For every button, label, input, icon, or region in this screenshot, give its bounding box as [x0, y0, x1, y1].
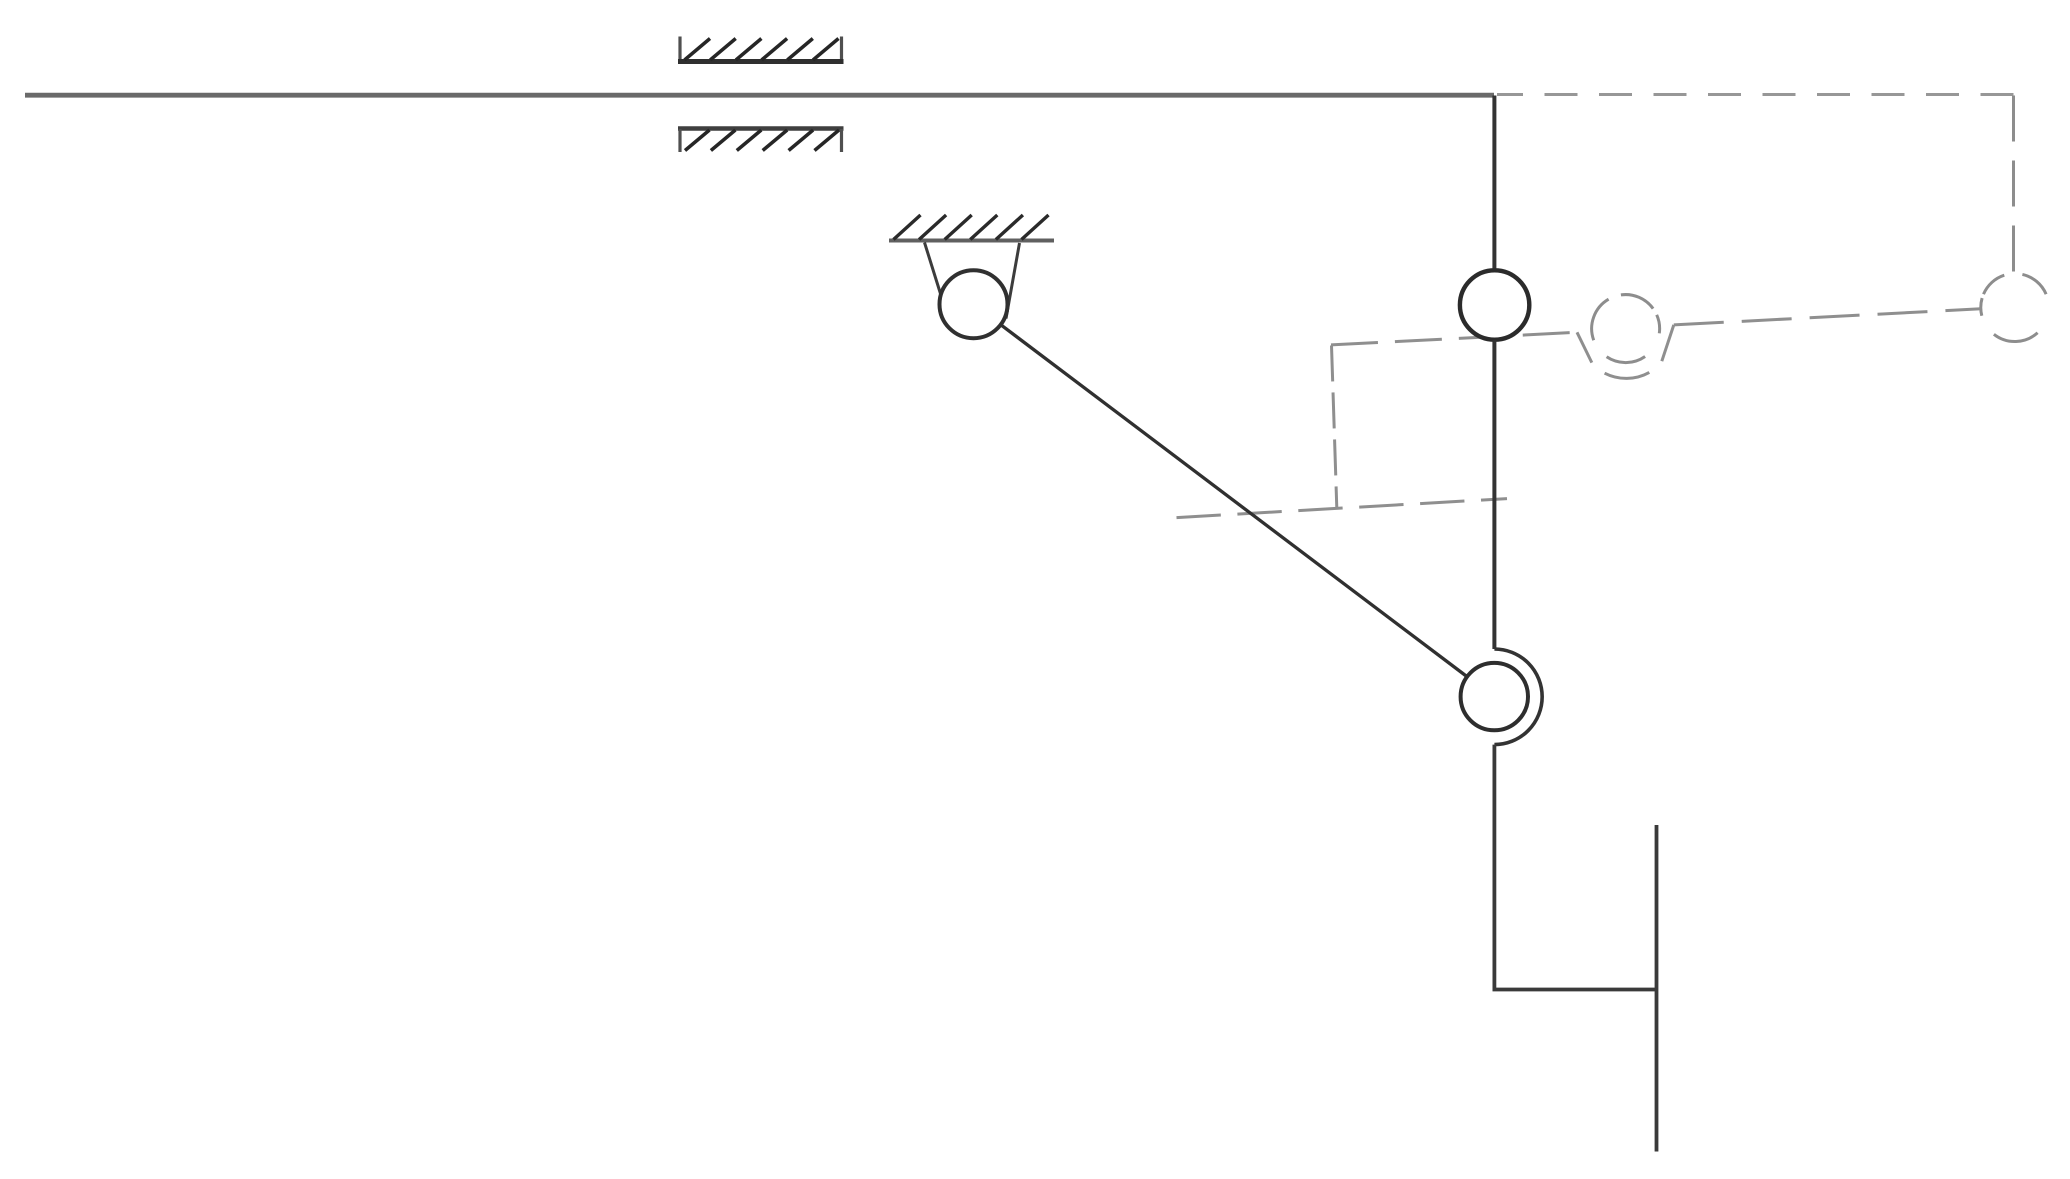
ghost notch lead-out right — [1662, 325, 1674, 361]
ghost pin circle C' — [1592, 295, 1660, 363]
pivot support legs — [925, 243, 1020, 319]
pivot ground hatching — [894, 215, 1049, 240]
ghost notch outer arc — [1605, 372, 1650, 378]
pivot pin circle O — [940, 270, 1008, 338]
pivot ground line — [889, 239, 1054, 243]
pin circle C — [1461, 663, 1528, 730]
slider rod rail — [25, 93, 1494, 98]
lower guide block hatching — [685, 130, 839, 151]
ghost notch lead-in left — [1577, 332, 1592, 362]
slider link lower vertical and foot — [1494, 745, 1656, 990]
joint circle B — [1460, 270, 1529, 339]
lower guide block top line — [678, 126, 844, 131]
upper guide block side edges — [680, 37, 842, 61]
upper guide block bottom line — [678, 59, 844, 64]
ghost link line left part — [1331, 332, 1577, 345]
ghost joint circle B' — [1981, 274, 2046, 341]
ghost vertical segment — [2012, 96, 2015, 274]
ghost foot dashed — [1332, 346, 1337, 509]
ghost rod dashed line — [1497, 93, 2014, 96]
crank link O-C — [1001, 325, 1466, 676]
notch semicircle arc around pin C — [1494, 649, 1542, 745]
slider link mid vertical segment — [1492, 340, 1496, 649]
ghost link line right part — [1674, 309, 1981, 325]
crossbar end plate — [1655, 825, 1659, 1152]
lower guide block side edges — [680, 129, 842, 152]
ghost crossbar dashed — [1177, 499, 1508, 518]
slider link upper vertical segment — [1492, 96, 1496, 273]
upper guide block hatching — [685, 39, 839, 61]
